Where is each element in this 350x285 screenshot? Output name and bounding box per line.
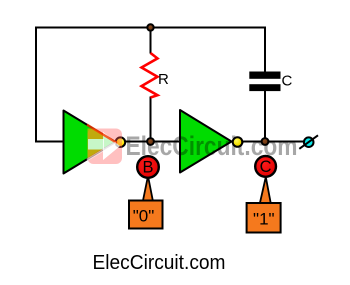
svg-text:ElecCircuit.com: ElecCircuit.com xyxy=(93,251,226,274)
svg-text:R: R xyxy=(158,71,169,88)
svg-text:C: C xyxy=(282,73,293,90)
svg-text:C: C xyxy=(260,158,272,176)
svg-text:B: B xyxy=(142,158,153,176)
svg-text:"1": "1" xyxy=(253,210,275,229)
svg-text:"0": "0" xyxy=(133,207,155,226)
